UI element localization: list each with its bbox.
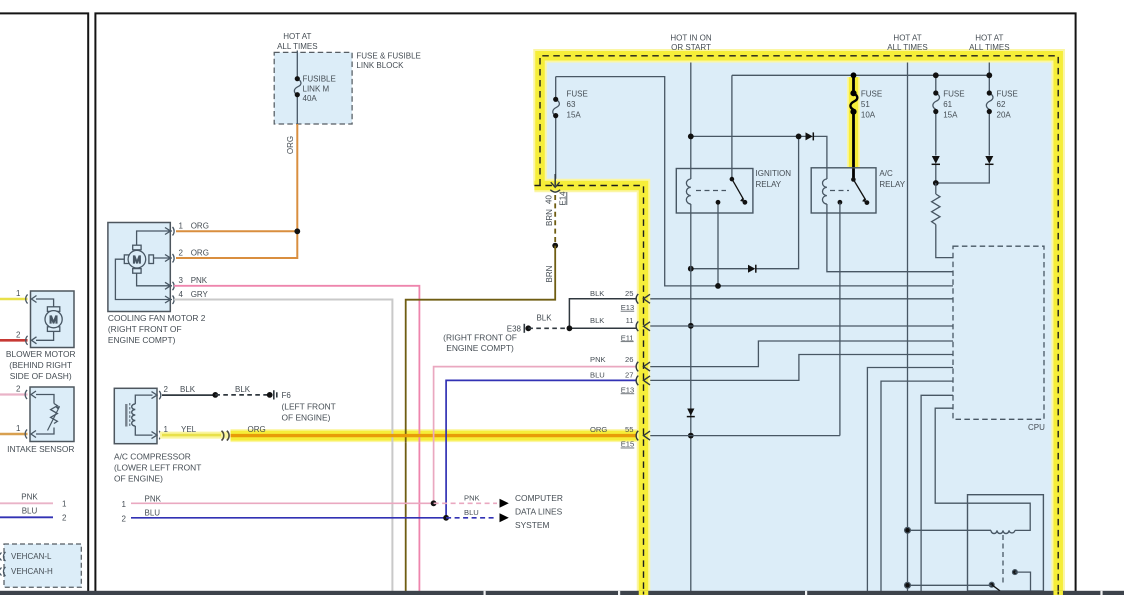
cooling fan motor M symbol xyxy=(124,245,153,273)
svg-text:26: 26 xyxy=(625,355,633,364)
svg-text:SIDE OF DASH): SIDE OF DASH) xyxy=(10,371,72,381)
svg-text:FUSE: FUSE xyxy=(567,90,588,99)
svg-text:HOT AT: HOT AT xyxy=(283,32,311,41)
compressor relay coil xyxy=(905,527,1015,533)
svg-text:1: 1 xyxy=(16,424,21,433)
svg-text:51: 51 xyxy=(861,100,870,109)
svg-text:20A: 20A xyxy=(997,111,1012,120)
HOT AT ALL TIMES label (fuse 62) xyxy=(969,34,1009,53)
CPU pin down-wire 2 xyxy=(881,381,953,591)
svg-text:2: 2 xyxy=(62,514,67,523)
svg-text:BLK: BLK xyxy=(235,385,251,394)
svg-text:OR START: OR START xyxy=(671,43,711,52)
svg-text:HOT AT: HOT AT xyxy=(975,34,1003,43)
svg-text:BLK: BLK xyxy=(536,314,552,323)
svg-text:OF ENGINE): OF ENGINE) xyxy=(114,474,163,484)
ignition relay common contact wire xyxy=(717,202,719,286)
resistor xyxy=(932,180,953,258)
svg-text:BLU: BLU xyxy=(590,370,605,379)
svg-text:25: 25 xyxy=(625,289,633,298)
svg-text:2: 2 xyxy=(16,385,21,394)
ORG highlighted wire to connector 55 xyxy=(231,425,641,436)
svg-text:BLU: BLU xyxy=(464,508,479,517)
VEHCAN pin connectors xyxy=(0,552,6,576)
BLU wire to connector 27 xyxy=(122,380,639,523)
HOT AT feed wire (compressor relay) xyxy=(907,53,909,591)
CPU pin line from BLU 27 xyxy=(646,355,953,381)
CPU pin wire to compressor relay xyxy=(935,408,1030,530)
svg-text:61: 61 xyxy=(943,100,952,109)
svg-text:PNK: PNK xyxy=(590,355,606,364)
svg-text:E15: E15 xyxy=(621,440,635,449)
svg-text:BLU: BLU xyxy=(145,509,161,518)
svg-text:15A: 15A xyxy=(943,111,958,120)
svg-text:M: M xyxy=(49,315,57,326)
BRN wire from connector 40 E14 xyxy=(406,195,558,591)
svg-text:DATA LINES: DATA LINES xyxy=(515,507,563,517)
relay trigger line y136 xyxy=(688,132,827,179)
svg-text:(RIGHT FRONT OF: (RIGHT FRONT OF xyxy=(443,333,517,343)
svg-text:ALL TIMES: ALL TIMES xyxy=(969,43,1009,52)
left page PNK data wire xyxy=(0,493,67,509)
ignition relay coil continues to ground path xyxy=(690,204,692,591)
svg-text:2: 2 xyxy=(16,331,21,340)
ORG wire from fusible link to cooling fan xyxy=(176,124,300,258)
svg-text:BLK: BLK xyxy=(180,385,196,394)
A/C compressor pin connectors xyxy=(152,391,161,439)
A/C relay output to ORG 55 xyxy=(649,203,840,436)
svg-text:ORG: ORG xyxy=(191,248,209,257)
svg-text:2: 2 xyxy=(179,248,184,257)
svg-text:11: 11 xyxy=(626,316,634,325)
yellow highlight border xyxy=(534,56,1058,595)
CPU pin line BLK 25 xyxy=(646,298,953,300)
svg-text:RELAY: RELAY xyxy=(756,180,782,189)
A/C relay coil xyxy=(822,179,826,204)
svg-text:BRN: BRN xyxy=(545,209,554,226)
svg-text:CPU: CPU xyxy=(1028,423,1045,432)
svg-text:HOT IN ON: HOT IN ON xyxy=(670,34,711,43)
A/C relay box xyxy=(811,168,906,213)
diode branch y268 xyxy=(688,134,802,273)
svg-text:10A: 10A xyxy=(861,111,876,120)
svg-text:M: M xyxy=(133,255,141,266)
connector 55 E15 xyxy=(590,425,650,449)
CPU pin line BLK 11 xyxy=(646,325,953,327)
svg-text:1: 1 xyxy=(16,289,21,298)
cooling fan pin labels xyxy=(179,221,209,298)
svg-text:BLOWER MOTOR: BLOWER MOTOR xyxy=(6,349,76,359)
blower motor box xyxy=(31,291,75,348)
ORG wire core xyxy=(231,434,644,437)
F6 connector symbol xyxy=(274,390,336,422)
fusible link M 40A xyxy=(294,51,335,125)
HOT AT ALL TIMES label (fuse 51/61) xyxy=(887,34,927,53)
svg-text:ORG: ORG xyxy=(590,425,607,434)
left page border xyxy=(0,13,88,591)
svg-text:E14: E14 xyxy=(559,191,568,206)
connector 40 E14 xyxy=(545,174,568,206)
blower motor pin2 RED wire xyxy=(0,331,28,341)
HOT IN ON OR START label xyxy=(670,34,711,53)
svg-text:COMPUTER: COMPUTER xyxy=(515,493,563,503)
svg-text:27: 27 xyxy=(625,370,633,379)
svg-text:E13: E13 xyxy=(621,303,635,312)
intake sensor pin1 ORG wire xyxy=(0,424,28,434)
svg-text:FUSE: FUSE xyxy=(997,90,1018,99)
PNK dashed branch to computer data lines xyxy=(431,494,509,508)
svg-text:LINK M: LINK M xyxy=(303,84,330,93)
yellow border over bar xyxy=(644,591,1059,595)
computer data lines system caption xyxy=(515,493,563,530)
cooling fan caption xyxy=(108,313,206,345)
svg-text:GRY: GRY xyxy=(191,290,209,299)
blower motor caption xyxy=(6,349,76,381)
svg-text:ORG: ORG xyxy=(191,221,209,230)
intake sensor internal wires xyxy=(36,395,54,435)
svg-text:40A: 40A xyxy=(303,94,318,103)
cooling fan motor 2 box xyxy=(108,223,170,312)
svg-text:HOT AT: HOT AT xyxy=(893,34,921,43)
ignition relay pivot supply xyxy=(731,75,733,179)
GRY wire pin4 xyxy=(174,300,392,592)
svg-text:4: 4 xyxy=(179,290,184,299)
PNK wire to connector 26 xyxy=(122,367,639,509)
blower motor pin1 YEL wire xyxy=(0,289,28,299)
svg-text:ORG: ORG xyxy=(286,136,295,154)
svg-text:SYSTEM: SYSTEM xyxy=(515,520,549,530)
fuse block caption xyxy=(356,51,420,70)
BLK 25 outside link xyxy=(567,299,639,331)
svg-text:PNK: PNK xyxy=(21,493,38,502)
CPU box xyxy=(953,246,1045,432)
ignition relay armature xyxy=(696,177,747,205)
fuse and fusible link block box xyxy=(274,52,352,124)
svg-text:IGNITION: IGNITION xyxy=(756,169,792,178)
svg-text:3: 3 xyxy=(179,276,184,285)
verticals crossing the highlight xyxy=(391,429,393,442)
svg-text:1: 1 xyxy=(122,500,127,509)
connector 25 E13 xyxy=(590,289,650,312)
svg-text:15A: 15A xyxy=(567,111,582,120)
svg-text:63: 63 xyxy=(567,100,576,109)
connector 26 xyxy=(590,355,650,372)
intake sensor pin connectors xyxy=(25,390,36,439)
CPU pin down-wire 3 xyxy=(921,395,953,591)
top bus fuse 51/61/62 xyxy=(732,74,989,76)
svg-text:OF ENGINE): OF ENGINE) xyxy=(282,413,331,423)
HOT AT ALL TIMES label (fusible link) xyxy=(277,32,317,51)
intake sensor pin2 PNK wire xyxy=(0,385,28,395)
fuse 51 yellow highlight xyxy=(847,77,860,167)
A/C compressor caption xyxy=(114,452,201,484)
svg-text:BLK: BLK xyxy=(590,289,604,298)
cooling fan internal wires xyxy=(115,231,172,300)
A/C compressor clutch coil xyxy=(126,395,152,435)
left page BLU data wire xyxy=(0,507,67,523)
compressor relay armature xyxy=(989,535,1030,591)
CPU pin down-wire 1 xyxy=(867,368,953,592)
svg-text:(RIGHT FRONT OF: (RIGHT FRONT OF xyxy=(108,324,182,334)
svg-text:COOLING FAN MOTOR 2: COOLING FAN MOTOR 2 xyxy=(108,313,206,323)
svg-text:E11: E11 xyxy=(621,333,634,342)
yellow border black dashes xyxy=(534,56,1058,595)
blower motor internal wires xyxy=(36,299,54,340)
fuse 62 20A xyxy=(936,53,1018,183)
svg-text:ORG: ORG xyxy=(248,425,266,434)
ignition relay coil xyxy=(686,179,690,204)
svg-text:ALL TIMES: ALL TIMES xyxy=(887,43,927,52)
HOT IN ON feed and ignition relay coil wire xyxy=(690,53,692,179)
YEL to ORG chevron connector xyxy=(222,431,230,441)
svg-text:LINK BLOCK: LINK BLOCK xyxy=(356,61,404,70)
svg-text:55: 55 xyxy=(625,425,633,434)
svg-text:1: 1 xyxy=(179,221,184,230)
connector 11 E11 xyxy=(590,316,650,342)
ignition relay box xyxy=(676,169,791,214)
compressor relay switch feed xyxy=(905,582,992,588)
CPU pin line from PNK 26 xyxy=(646,341,953,367)
highlighted subsystem blue fill xyxy=(540,56,1059,591)
fuse 61 15A xyxy=(932,72,965,183)
svg-text:FUSE: FUSE xyxy=(861,90,882,99)
svg-text:INTAKE SENSOR: INTAKE SENSOR xyxy=(7,444,74,454)
A/C relay coil ground to CPU xyxy=(827,204,953,272)
intake sensor thermistor xyxy=(48,404,60,431)
E38 ground connector xyxy=(443,314,568,354)
blower motor M symbol xyxy=(45,307,62,332)
svg-text:PNK: PNK xyxy=(191,276,208,285)
fuse 63 15A xyxy=(553,77,588,180)
svg-text:RELAY: RELAY xyxy=(879,180,905,189)
connector 27 E13 xyxy=(590,370,650,394)
svg-text:BRN: BRN xyxy=(545,265,554,282)
intake sensor box xyxy=(30,387,74,442)
svg-text:1: 1 xyxy=(164,425,169,434)
svg-text:62: 62 xyxy=(997,100,1006,109)
A/C relay armature xyxy=(830,177,869,205)
blower motor pin connectors xyxy=(26,295,37,345)
svg-text:(LOWER LEFT FRONT: (LOWER LEFT FRONT xyxy=(114,463,201,473)
svg-text:VEHCAN-H: VEHCAN-H xyxy=(11,567,53,576)
A/C compressor box xyxy=(114,388,157,443)
svg-text:A/C: A/C xyxy=(879,169,893,178)
svg-text:A/C COMPRESSOR: A/C COMPRESSOR xyxy=(114,452,191,462)
svg-text:FUSE: FUSE xyxy=(943,90,964,99)
BLU dashed branch to computer data lines xyxy=(443,508,509,523)
svg-text:(BEHIND RIGHT: (BEHIND RIGHT xyxy=(9,360,72,370)
bottom pages bar xyxy=(0,591,1124,595)
fuse 63 feed bus xyxy=(556,77,953,286)
svg-text:2: 2 xyxy=(122,515,127,524)
A/C compressor pin2 BLK wire to F6 xyxy=(162,385,273,398)
svg-text:1: 1 xyxy=(62,500,67,509)
svg-text:YEL: YEL xyxy=(181,425,197,434)
svg-text:ALL TIMES: ALL TIMES xyxy=(277,42,317,51)
compressor relay box (bottom right) xyxy=(968,495,1044,591)
svg-text:(LEFT FRONT: (LEFT FRONT xyxy=(282,402,336,412)
svg-text:BLU: BLU xyxy=(22,507,38,516)
svg-text:BLK: BLK xyxy=(590,316,604,325)
svg-text:VEHCAN-L: VEHCAN-L xyxy=(11,552,52,561)
svg-text:FUSE & FUSIBLE: FUSE & FUSIBLE xyxy=(356,51,420,60)
svg-text:40: 40 xyxy=(545,195,554,204)
fuse 51 10A bold wire xyxy=(850,72,882,179)
svg-text:ENGINE COMPT): ENGINE COMPT) xyxy=(446,343,514,353)
svg-text:F6: F6 xyxy=(282,391,292,400)
svg-text:2: 2 xyxy=(164,385,169,394)
cooling fan pin connectors xyxy=(165,227,174,304)
A/C compressor pin1 YEL wire with highlight xyxy=(160,425,229,435)
VEHCAN connector block xyxy=(4,544,81,587)
svg-text:E13: E13 xyxy=(621,385,635,394)
PNK wire pin3 xyxy=(174,286,419,591)
svg-text:FUSIBLE: FUSIBLE xyxy=(303,75,336,84)
svg-text:ENGINE COMPT): ENGINE COMPT) xyxy=(108,335,176,345)
svg-text:PNK: PNK xyxy=(145,495,162,504)
svg-text:PNK: PNK xyxy=(464,494,480,503)
diode on hot-in-on ground path xyxy=(687,409,695,417)
